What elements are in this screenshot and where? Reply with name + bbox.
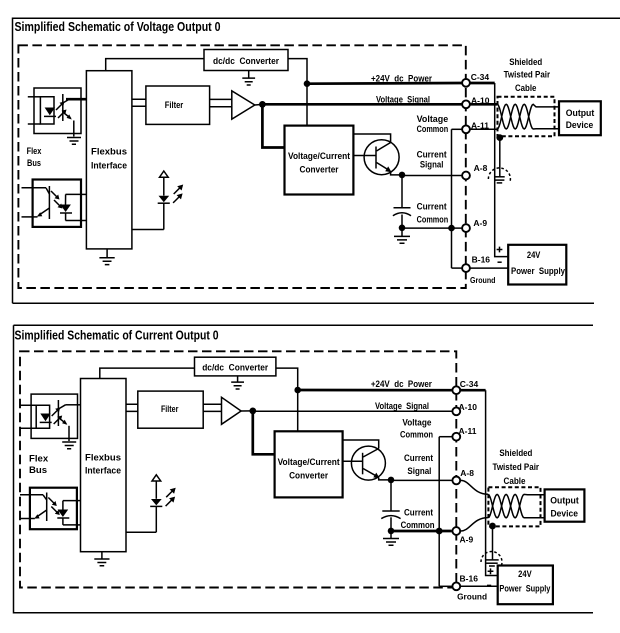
U3 LED diode [40, 414, 50, 422]
wire Flexbus to LED [132, 229, 164, 231]
svg-text:B-16: B-16 [472, 254, 491, 264]
outer solid border (top schematic) [13, 18, 620, 303]
svg-text:Filter: Filter [165, 100, 184, 111]
svg-text:Power Supply: Power Supply [499, 583, 551, 594]
Output Device box [559, 101, 601, 135]
wire U1 anode input [28, 96, 41, 98]
twisted pair wire A [488, 494, 544, 517]
U2 light arrows [51, 191, 58, 198]
ground under U1 [67, 138, 81, 145]
wire A-11 Voltage Common [452, 128, 462, 130]
U3 light arrows [52, 409, 59, 416]
twisted pair wire A [497, 104, 559, 129]
junction common node at A-9 [436, 528, 443, 535]
wire amp output down to V/C converter [253, 411, 275, 454]
Flexbus Interface box [86, 71, 131, 249]
svg-text:24V: 24V [518, 569, 532, 580]
wire U3 anode input [20, 404, 36, 406]
SCHEMATIC 2 : Current Output 0 [14, 325, 594, 613]
ground under dc/dc [242, 71, 255, 86]
LED indicator D2 [152, 475, 161, 481]
svg-text:C-34: C-34 [460, 379, 479, 389]
wire dc/dc to +24V node and V/C converter [276, 368, 298, 431]
minus label at supply [498, 261, 502, 263]
svg-text:+24V dc Power: +24V dc Power [371, 379, 432, 390]
junction +24V node [304, 80, 311, 87]
svg-text:Interface: Interface [91, 160, 127, 171]
svg-text:Converter: Converter [289, 471, 328, 482]
svg-text:Signal: Signal [407, 466, 431, 477]
terminal A-11 [452, 433, 460, 441]
U3 inner LED frame [36, 405, 49, 428]
svg-text:Filter: Filter [161, 404, 179, 415]
U3 emitter down wire [68, 426, 70, 441]
terminal B-16 [452, 582, 460, 590]
ground under U3 [62, 442, 76, 449]
terminal A-10 [462, 100, 470, 108]
wire Current Common [391, 530, 452, 533]
svg-text:Ground: Ground [470, 275, 496, 285]
plus label at supply [488, 568, 494, 574]
shield earth ground symbol [481, 551, 502, 565]
wire A-8 to twisted pair [461, 480, 488, 494]
wire Current Common [402, 227, 462, 229]
transistor Q2 [351, 446, 385, 480]
wire Current Signal [391, 479, 452, 481]
junction amp output node [249, 408, 256, 415]
U1 LED diode [45, 108, 55, 116]
svg-text:Device: Device [550, 509, 578, 520]
Filter box [146, 86, 210, 124]
Filter box [138, 391, 203, 428]
U4 phototransistor Q [46, 493, 48, 522]
svg-text:Bus: Bus [27, 158, 41, 169]
bus wires Flexbus to Filter [126, 404, 138, 411]
wire U2 emitter input [22, 216, 38, 218]
wire Q2 base from V/C [343, 460, 363, 462]
svg-text:Device: Device [566, 120, 594, 131]
svg-text:Cable: Cable [515, 83, 537, 94]
wire B-16 to power supply minus [461, 585, 498, 587]
svg-text:A-10: A-10 [459, 402, 478, 412]
wire B-16 to terminal [439, 585, 452, 587]
wire C-34 to power supply plus [461, 389, 486, 392]
wire Current Signal [402, 175, 462, 177]
junction cable shield node [496, 134, 503, 141]
svg-text:Flex: Flex [29, 454, 49, 465]
wire A-9 to twisted pair [461, 518, 488, 531]
wire Q2 collector from V/C [343, 440, 379, 449]
terminal A-9 [462, 224, 470, 232]
twisted pair wire B [497, 104, 559, 129]
bus wires Filter to amplifier [210, 99, 232, 106]
svg-text:Simplified Schematic of Curren: Simplified Schematic of Current Output 0 [15, 328, 219, 343]
wire U1 collector to Flexbus [66, 98, 86, 101]
wire U2 to Flexbus upper [81, 193, 86, 195]
svg-text:Converter: Converter [300, 165, 339, 176]
terminal C-34 [462, 79, 470, 87]
svg-text:Common: Common [417, 215, 449, 226]
svg-text:Shielded: Shielded [509, 57, 542, 68]
shield earth ground symbol [488, 168, 510, 182]
ground under Flexbus [99, 249, 114, 265]
junction amp output node [259, 101, 266, 108]
svg-text:Bus: Bus [29, 465, 47, 476]
Flexbus Interface box [81, 379, 127, 552]
dc/dc Converter box [204, 50, 288, 71]
plus label at supply [497, 247, 503, 253]
svg-text:A-8: A-8 [474, 163, 488, 173]
svg-text:A-9: A-9 [460, 535, 474, 545]
U2 inner LED frame [66, 194, 82, 220]
24V Power Supply box [508, 245, 566, 285]
junction +24V node [294, 387, 301, 394]
Output Device box [545, 489, 585, 521]
terminal B-16 [462, 264, 470, 272]
Q1 emitter with arrow [377, 163, 390, 171]
svg-text:Shielded: Shielded [499, 448, 532, 459]
svg-text:+24V dc Power: +24V dc Power [371, 74, 432, 85]
U3 phototransistor Q [57, 400, 59, 426]
op-amp buffer A2 [222, 397, 242, 424]
svg-text:Cable: Cable [504, 476, 526, 487]
wire Q1 base from V/C [353, 155, 376, 157]
24V Power Supply box [498, 566, 553, 605]
svg-text:Voltage: Voltage [402, 418, 431, 429]
wire U3 cathode input [20, 427, 36, 429]
optocoupler U1 box [34, 88, 81, 134]
svg-text:Ground: Ground [457, 592, 487, 602]
wire U2 to Flexbus lower [81, 220, 86, 222]
U2 LED diode [60, 205, 71, 213]
svg-text:Interface: Interface [85, 466, 121, 477]
wire dc/dc to +24V node and V/C converter [288, 59, 307, 126]
ground under capacitor [383, 531, 399, 545]
wire shield to earth [492, 526, 494, 559]
optocoupler U2 box [33, 180, 81, 227]
dc/dc Converter box [195, 357, 276, 376]
svg-text:B-16: B-16 [460, 574, 479, 584]
junction emitter node [399, 172, 406, 179]
wire U3 collector to Flexbus [66, 404, 81, 406]
bus wires Filter to amplifier [203, 404, 221, 411]
terminal A-8 [452, 477, 460, 485]
svg-text:Signal: Signal [420, 160, 444, 171]
svg-text:Twisted Pair: Twisted Pair [504, 69, 551, 80]
svg-text:Current: Current [417, 202, 448, 213]
dashed module boundary box [18, 45, 465, 288]
wire shield to earth [499, 138, 501, 177]
wire U4 emitter input [20, 518, 35, 520]
outer solid border (bottom schematic) [14, 325, 594, 613]
U1 light arrows [56, 103, 63, 110]
LED light arrows [166, 490, 173, 497]
wire B-16 to terminal [452, 267, 462, 269]
wire amp output [241, 410, 253, 412]
wire U2 collector input [22, 187, 47, 189]
dashed module boundary box [20, 351, 456, 587]
shielded cable dashed box [488, 487, 540, 526]
SCHEMATIC 1 : Voltage Output 0 [13, 18, 620, 303]
U1 inner LED frame [40, 97, 54, 124]
wire amp output [255, 103, 263, 106]
svg-text:Output: Output [550, 495, 579, 506]
svg-text:Simplified Schematic of Voltag: Simplified Schematic of Voltage Output 0 [15, 19, 221, 34]
wire Flexbus top to dc/dc converter [106, 59, 204, 71]
svg-text:dc/dc Converter: dc/dc Converter [202, 363, 268, 374]
LED indicator D1 [160, 171, 169, 177]
wire U4 to Flexbus lower [77, 524, 81, 526]
wire A-11 Voltage Common [439, 436, 452, 438]
op-amp buffer A1 [232, 91, 255, 119]
svg-text:dc/dc Converter: dc/dc Converter [213, 56, 279, 67]
junction common node at A-9 [448, 225, 455, 232]
bus wires Flexbus to Filter [132, 99, 146, 106]
wire A-11 to twisted pair [471, 128, 498, 130]
U4 inner LED frame [63, 501, 77, 525]
junction cable shield node [489, 523, 496, 530]
U4 light arrows [48, 498, 55, 505]
twisted pair wire B [488, 494, 544, 517]
svg-text:A-10: A-10 [471, 96, 490, 106]
svg-text:A-11: A-11 [471, 120, 489, 130]
wire Flexbus to LED [126, 531, 156, 533]
svg-text:Flexbus: Flexbus [85, 452, 121, 463]
svg-text:24V: 24V [527, 250, 541, 261]
shielded cable dashed box [498, 97, 555, 137]
terminal A-9 [452, 527, 460, 535]
svg-text:Twisted Pair: Twisted Pair [493, 462, 540, 473]
wire C-34 to power supply plus [471, 82, 495, 85]
svg-text:Voltage/Current: Voltage/Current [278, 457, 341, 468]
junction capacitor bottom node [388, 528, 395, 535]
wire Q1 collector from V/C [353, 134, 390, 143]
svg-text:Common: Common [417, 124, 449, 135]
Q2 emitter with arrow [363, 469, 377, 477]
terminal A-10 [452, 407, 460, 415]
minus label at supply [487, 584, 491, 586]
U1 phototransistor Q [62, 94, 64, 121]
optocoupler U3 box [31, 394, 77, 438]
svg-text:Voltage Signal: Voltage Signal [376, 95, 430, 106]
terminal A-8 [462, 172, 470, 180]
wire common vertical A-11 to B-16 [451, 129, 453, 268]
svg-text:Common: Common [401, 520, 435, 531]
wire U1 cathode input [28, 123, 41, 125]
wire amp output down to V/C converter [262, 104, 284, 147]
ground under capacitor [394, 228, 410, 243]
wire +24V dc Power [307, 82, 462, 85]
ground under dc/dc [231, 376, 244, 389]
svg-text:C-34: C-34 [471, 72, 490, 82]
svg-text:Common: Common [400, 430, 433, 441]
wire Voltage Signal [253, 410, 452, 412]
svg-text:A-11: A-11 [459, 426, 477, 436]
optocoupler U4 box [30, 488, 77, 530]
wire B-16 to power supply minus [471, 267, 509, 269]
wire +24V dc Power [298, 389, 452, 392]
svg-text:Output: Output [566, 108, 595, 119]
U2 phototransistor Q [48, 186, 50, 219]
ground under Flexbus [94, 552, 109, 566]
capacitor C1 [401, 175, 403, 207]
junction emitter node [388, 477, 395, 484]
U4 LED diode [58, 510, 69, 518]
svg-text:Voltage Signal: Voltage Signal [375, 401, 429, 412]
svg-text:A-8: A-8 [460, 468, 474, 478]
Voltage/Current Converter box [275, 431, 343, 497]
svg-text:Flex: Flex [27, 146, 42, 157]
wire common vertical A-11 to B-16 [438, 437, 440, 587]
U1 emitter down wire [73, 121, 75, 137]
capacitor C2 [390, 480, 392, 511]
transistor Q1 [364, 140, 399, 175]
svg-text:Voltage/Current: Voltage/Current [288, 151, 351, 162]
junction capacitor bottom node [399, 225, 406, 232]
Voltage/Current Converter box [285, 126, 354, 195]
wire Voltage Signal [262, 103, 461, 106]
svg-text:Power Supply: Power Supply [511, 266, 566, 277]
svg-text:Current: Current [404, 453, 434, 464]
svg-text:Current: Current [404, 508, 434, 519]
svg-text:Flexbus: Flexbus [91, 147, 127, 158]
svg-text:A-9: A-9 [473, 218, 487, 228]
terminal C-34 [452, 386, 460, 394]
terminal A-11 [462, 125, 470, 133]
wire U4 collector input [20, 494, 43, 496]
wire U4 to Flexbus upper [77, 500, 81, 502]
LED light arrows [174, 187, 181, 194]
wire Flexbus top to dc/dc converter [100, 368, 195, 378]
wire A-10 to twisted pair [471, 103, 498, 106]
